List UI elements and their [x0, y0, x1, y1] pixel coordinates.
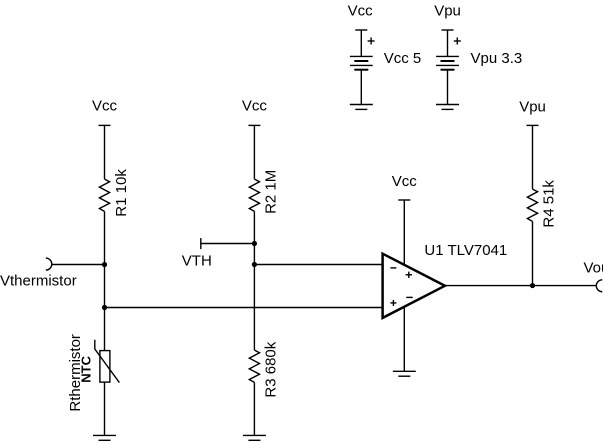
power flag Vcc (above R1) — [99, 125, 111, 179]
plus sign BT1 — [368, 38, 375, 45]
pin mark minus (inverting input) — [390, 267, 396, 269]
svg-text:R3 680k: R3 680k — [263, 341, 280, 397]
thermistor Rthermistor body — [100, 351, 110, 383]
connector Vthermistor (open pin arc) — [46, 258, 52, 270]
power flag Vcc (top of battery BT1) — [355, 30, 367, 56]
svg-text:R1 10k: R1 10k — [113, 169, 130, 217]
power flag Vcc (above U1) — [398, 200, 410, 264]
ground below BT2 — [436, 105, 459, 110]
wire comparator output to Vout connector — [445, 285, 596, 287]
resistor R1 10k — [99, 179, 109, 211]
node junction Vout — [530, 283, 535, 288]
node junction to comparator + input — [102, 305, 107, 310]
power flag Vcc (above R2) — [248, 125, 260, 179]
connector Vout (open pin arc) — [596, 280, 602, 292]
node junction VTH — [252, 241, 257, 246]
ground below R3 — [243, 435, 266, 440]
inner minus mark — [406, 296, 412, 298]
inner plus mark — [406, 272, 412, 278]
power flag Vpu (top of battery BT2) — [442, 30, 454, 56]
wire battery BT2 to ground — [447, 70, 449, 105]
svg-text:Vpu: Vpu — [434, 3, 461, 20]
svg-text:Vthermistor: Vthermistor — [0, 272, 77, 289]
svg-text:Vpu 3.3: Vpu 3.3 — [471, 50, 523, 67]
svg-text:Vcc: Vcc — [242, 97, 268, 114]
VTH tap bar — [200, 238, 202, 249]
svg-text:NTC: NTC — [78, 355, 93, 382]
battery BT1 Vcc 5 — [350, 56, 373, 69]
wire R4 to output node — [532, 221, 534, 285]
ground below U1 — [393, 371, 416, 376]
svg-text:R4 51k: R4 51k — [541, 180, 558, 228]
wire thermistor to ground — [104, 382, 106, 435]
svg-text:Vcc: Vcc — [348, 3, 374, 20]
pin mark plus (non-inverting input) — [390, 300, 396, 306]
wire Vthermistor node to comparator non-inverting input — [105, 307, 383, 309]
svg-text:Vout: Vout — [584, 260, 603, 277]
wire comparator Vee to ground — [403, 307, 405, 371]
svg-text:Vcc: Vcc — [392, 173, 418, 190]
wire VTH tap to node — [201, 243, 255, 245]
wire R3 to ground — [253, 382, 255, 435]
battery BT2 Vpu 3.3 — [436, 56, 459, 69]
resistor R2 1M — [249, 179, 259, 211]
node junction to comparator - input — [252, 262, 257, 267]
thermistor NTC diagonal mark — [95, 340, 120, 383]
svg-text:Vcc: Vcc — [92, 97, 118, 114]
power flag Vpu (above R4) — [527, 125, 539, 189]
resistor R4 51k — [527, 189, 537, 221]
node junction Vthermistor wire — [102, 262, 107, 267]
wire Vthermistor connector to node — [52, 264, 105, 266]
ground below BT1 — [350, 105, 373, 110]
wire VTH node to comparator inverting input — [254, 264, 382, 266]
wire battery BT1 to ground — [360, 70, 362, 105]
svg-text:U1 TLV7041: U1 TLV7041 — [424, 242, 507, 259]
wire R1 to thermistor — [104, 211, 106, 350]
op-amp U1 TLV7041 triangle — [383, 254, 445, 318]
plus sign BT2 — [454, 38, 461, 45]
resistor R3 680k — [249, 350, 259, 382]
svg-text:R2 1M: R2 1M — [263, 170, 280, 214]
svg-text:Vcc 5: Vcc 5 — [384, 50, 422, 67]
svg-text:VTH: VTH — [182, 252, 212, 269]
wire R2 to R3 — [253, 211, 255, 350]
svg-text:Vpu: Vpu — [519, 99, 546, 116]
ground below Rthermistor — [93, 435, 116, 440]
